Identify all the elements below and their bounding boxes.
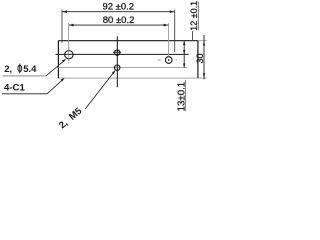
plate body left edge — [57, 41, 59, 78]
dim 12 text leader — [192, 31, 194, 41]
leader line 4-C1 — [2, 79, 64, 94]
chain dim arrow down at CL2 — [183, 64, 185, 68]
dim 92 line — [62, 11, 175, 13]
dim 92 left extension line — [61, 10, 63, 43]
leader line M6 — [85, 71, 115, 109]
arrowhead 4-C1 — [61, 78, 65, 82]
hole right phi5.4 — [165, 57, 172, 64]
svg-text:4-C1: 4-C1 — [4, 83, 25, 94]
chain dim line 12/13 — [183, 41, 185, 68]
svg-text:2,: 2, — [4, 64, 12, 75]
plate body right edge — [197, 41, 199, 78]
leader line phi5.4 — [3, 75, 47, 77]
extension of top edge toward 30 dim — [198, 40, 207, 42]
dim 92 right extension line — [174, 10, 176, 52]
plate body bottom edge — [58, 77, 207, 79]
svg-text:5.4: 5.4 — [23, 64, 37, 75]
dim 13 text underline — [185, 80, 187, 111]
dim 30 line — [203, 35, 205, 79]
plate body top edge — [58, 40, 198, 42]
dim 80 right extension line — [168, 23, 170, 56]
arrowhead M6 — [112, 70, 116, 74]
svg-text:80 ±0.2: 80 ±0.2 — [103, 15, 135, 26]
tapped hole M6 upper — [115, 50, 120, 55]
centerline CL1 through hole row — [56, 53, 189, 55]
chain dim arrow down at CL1 — [183, 50, 185, 54]
vertical centerline of M6 holes — [116, 36, 118, 87]
svg-text:12 ±0.1: 12 ±0.1 — [189, 1, 199, 31]
dim 12 text underline — [197, 2, 199, 31]
svg-text:92 ±0.2: 92 ±0.2 — [102, 1, 134, 12]
upper M6 crosshair — [113, 51, 121, 53]
right hole dash-dot centerline — [158, 59, 177, 61]
chain dim arrow up at top edge — [183, 41, 185, 45]
dim 80 left arrow — [69, 24, 74, 27]
dim 80 line — [69, 24, 169, 26]
phi symbol — [18, 64, 22, 74]
dim 30 top arrow — [203, 41, 205, 46]
svg-text:30: 30 — [195, 53, 205, 63]
hole left phi5.4 — [65, 51, 73, 59]
dim 92 right arrow — [170, 10, 175, 13]
left hole vertical centerline — [68, 47, 70, 63]
dim 30 bottom arrow — [203, 73, 205, 78]
dim 80 left extension line — [68, 23, 70, 47]
tapped hole M6 lower — [115, 65, 120, 70]
right hole center dot — [168, 59, 170, 61]
arrowhead phi5.4 — [62, 59, 66, 63]
dim 92 left arrow — [62, 10, 67, 13]
dim 80 right arrow — [164, 24, 169, 27]
centerline CL2 through lower M6 hole — [56, 67, 187, 69]
